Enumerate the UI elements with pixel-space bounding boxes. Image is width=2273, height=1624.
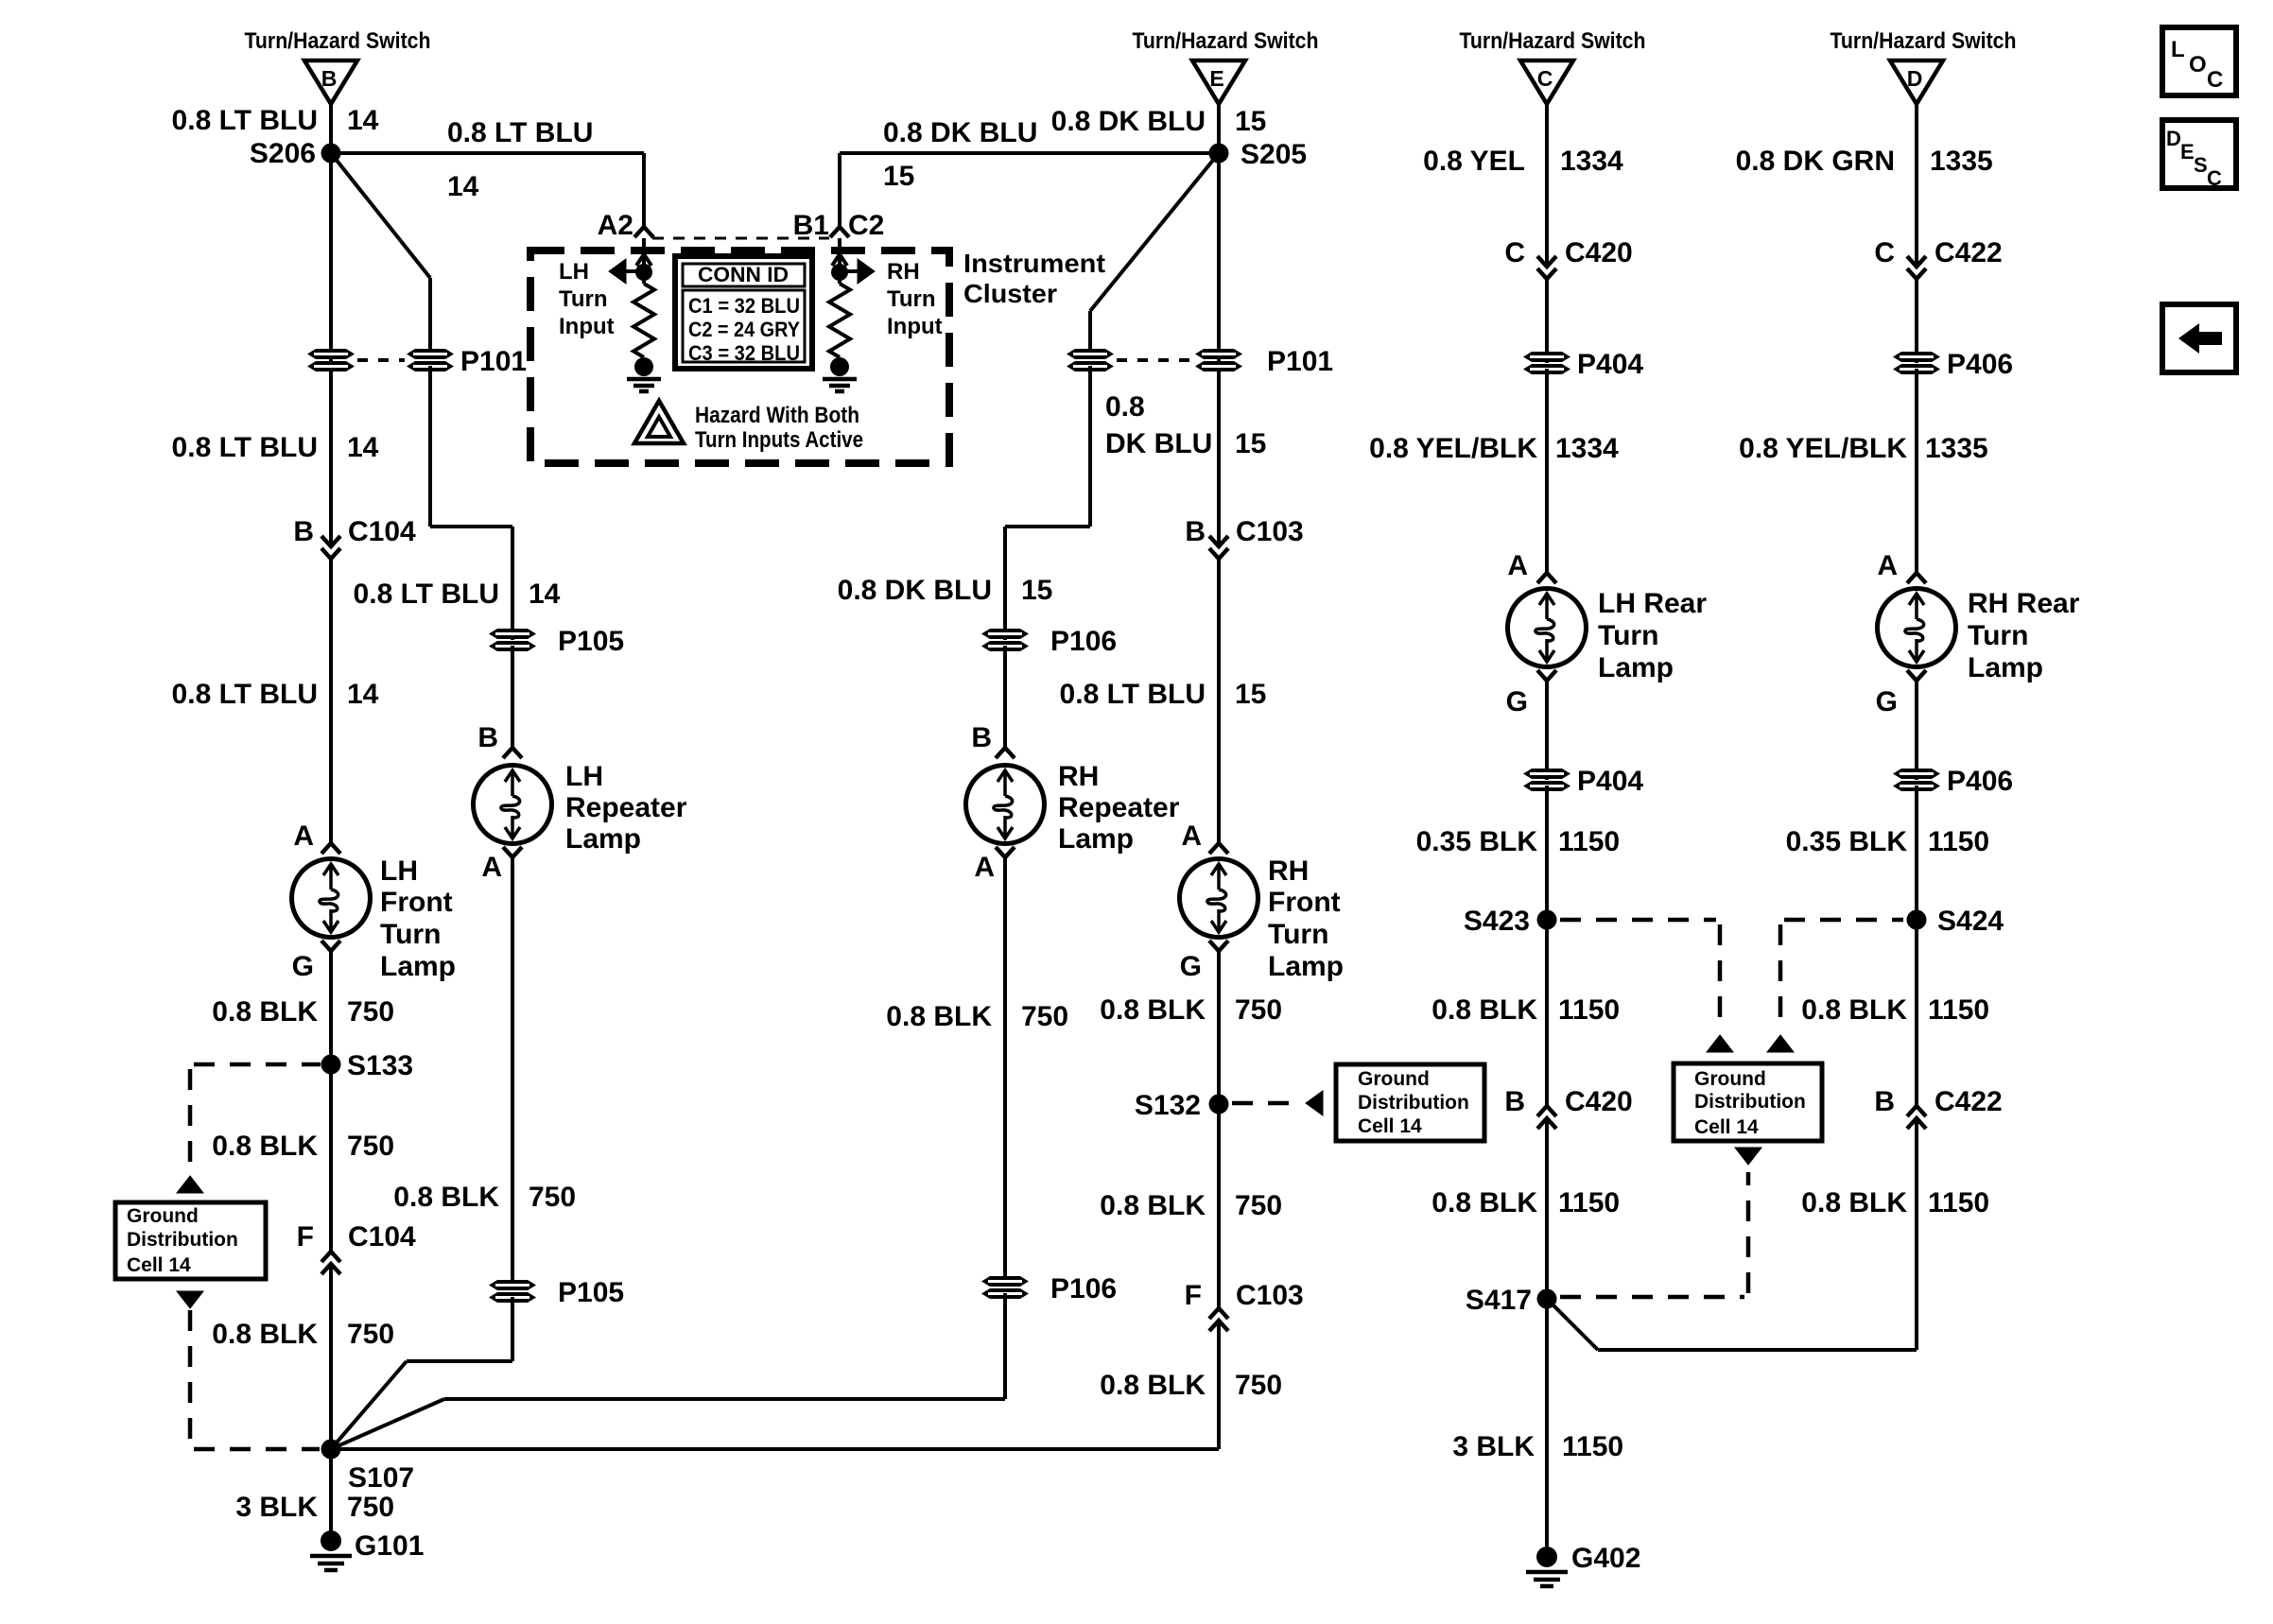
wire P406 to RH rear lamp bbox=[1915, 369, 1918, 573]
svg-text:0.8 BLK: 0.8 BLK bbox=[212, 996, 318, 1028]
svg-text:0.8 DK BLU: 0.8 DK BLU bbox=[883, 117, 1037, 148]
svg-text:1334: 1334 bbox=[1560, 146, 1623, 177]
wire diagonal corner down to P101 bbox=[428, 278, 432, 354]
grommet P101 (right pair, left) bbox=[1067, 349, 1114, 371]
svg-text:Turn/Hazard Switch: Turn/Hazard Switch bbox=[1133, 28, 1319, 54]
svg-text:A2: A2 bbox=[598, 210, 633, 241]
svg-text:0.8: 0.8 bbox=[1105, 391, 1145, 423]
svg-text:G402: G402 bbox=[1571, 1543, 1640, 1574]
svg-text:0.8 LT BLU: 0.8 LT BLU bbox=[1060, 679, 1206, 710]
lamp RH Front Turn Lamp bbox=[1180, 859, 1258, 938]
ground distribution box (left) bbox=[115, 1202, 266, 1279]
wire jog left bbox=[1005, 525, 1090, 528]
wire corner left toward S417 bbox=[1598, 1348, 1917, 1352]
svg-text:Input: Input bbox=[559, 314, 615, 339]
svg-text:A: A bbox=[1507, 550, 1528, 581]
connector triangle E (Turn/Hazard Switch) bbox=[1192, 60, 1245, 104]
svg-text:1150: 1150 bbox=[1558, 826, 1620, 857]
wire B C420 down to G402 bbox=[1545, 1118, 1549, 1546]
svg-text:0.8 LT BLU: 0.8 LT BLU bbox=[354, 579, 499, 610]
svg-text:0.8 LT BLU: 0.8 LT BLU bbox=[447, 117, 593, 148]
grommet P105 (bottom) bbox=[489, 1280, 536, 1303]
grommet P105 (top) bbox=[489, 629, 536, 651]
svg-text:15: 15 bbox=[1235, 679, 1266, 710]
svg-text:C2 = 24 GRY: C2 = 24 GRY bbox=[688, 318, 800, 341]
svg-text:RH: RH bbox=[1268, 855, 1309, 887]
lamp LH Repeater Lamp bbox=[474, 766, 552, 844]
ground G402 bbox=[1526, 1546, 1568, 1586]
svg-text:1150: 1150 bbox=[1928, 1187, 1989, 1218]
svg-text:Hazard With Both: Hazard With Both bbox=[695, 403, 859, 428]
svg-text:14: 14 bbox=[529, 579, 561, 610]
svg-text:S: S bbox=[2194, 153, 2208, 177]
wire F C104 down to G101 bbox=[329, 1264, 333, 1533]
arrow down out of ground distribution box (left) bbox=[177, 1291, 203, 1308]
svg-text:750: 750 bbox=[1235, 994, 1282, 1026]
svg-text:C1 = 32 BLU: C1 = 32 BLU bbox=[688, 294, 800, 318]
grommet P106 (top) bbox=[981, 629, 1029, 651]
svg-text:RH: RH bbox=[887, 259, 920, 285]
svg-text:E: E bbox=[1209, 66, 1223, 91]
svg-text:P105: P105 bbox=[558, 1277, 624, 1308]
svg-text:Repeater: Repeater bbox=[1058, 792, 1180, 823]
svg-text:0.8 BLK: 0.8 BLK bbox=[1431, 994, 1537, 1026]
svg-text:D: D bbox=[2166, 127, 2181, 150]
lamp RH Rear Turn Lamp bbox=[1878, 589, 1956, 667]
svg-text:Input: Input bbox=[887, 314, 943, 339]
arrow left out of ground distribution box (S132) bbox=[1306, 1091, 1323, 1115]
wire C103 to RH front turn lamp bbox=[1217, 559, 1221, 843]
grommet P106 (bottom) bbox=[981, 1276, 1029, 1299]
svg-text:15: 15 bbox=[1235, 106, 1266, 137]
svg-text:B: B bbox=[321, 66, 338, 91]
svg-text:G: G bbox=[292, 951, 314, 982]
svg-text:Turn/Hazard Switch: Turn/Hazard Switch bbox=[1460, 28, 1646, 54]
junction dot RH turn input bbox=[831, 264, 848, 281]
wire A2 into cluster bbox=[642, 238, 646, 284]
svg-text:S205: S205 bbox=[1241, 139, 1307, 170]
svg-text:G: G bbox=[1506, 686, 1528, 717]
svg-text:G: G bbox=[1876, 686, 1898, 717]
wire jog down to P105 bbox=[511, 527, 514, 640]
svg-text:Turn: Turn bbox=[1268, 919, 1328, 950]
grommet P406 (bottom) bbox=[1893, 769, 1940, 791]
ground G101 bbox=[310, 1530, 352, 1570]
wire jog down to P106 bbox=[1003, 527, 1007, 640]
svg-text:0.8 LT BLU: 0.8 LT BLU bbox=[172, 679, 318, 710]
svg-text:C: C bbox=[1504, 237, 1525, 268]
svg-text:Turn: Turn bbox=[1968, 620, 2028, 651]
svg-text:14: 14 bbox=[347, 679, 379, 710]
wire F C103 down to S107 run bbox=[1217, 1321, 1221, 1449]
grommet P101 (left pair, right) bbox=[407, 349, 454, 371]
svg-text:A: A bbox=[974, 852, 995, 883]
wire S205 diagonal to P101 branch bbox=[1090, 153, 1219, 311]
svg-text:0.8 BLK: 0.8 BLK bbox=[1100, 1190, 1206, 1221]
svg-text:750: 750 bbox=[1235, 1190, 1282, 1221]
svg-text:Ground: Ground bbox=[1694, 1068, 1766, 1090]
svg-text:C2: C2 bbox=[848, 210, 884, 241]
svg-text:S206: S206 bbox=[250, 138, 316, 169]
svg-text:C: C bbox=[1537, 66, 1553, 91]
svg-text:Turn: Turn bbox=[559, 286, 608, 312]
connector chevron G at LH front turn lamp bbox=[321, 941, 340, 951]
resistor LH turn input bbox=[633, 284, 654, 357]
connector interface dashed line A2-B1 bbox=[652, 237, 829, 240]
connector triangle C (Turn/Hazard Switch) bbox=[1520, 60, 1573, 104]
svg-text:Lamp: Lamp bbox=[380, 951, 456, 982]
svg-text:P404: P404 bbox=[1577, 349, 1643, 380]
wire LH rear lamp to P404 bottom bbox=[1545, 681, 1549, 780]
svg-text:750: 750 bbox=[347, 1319, 394, 1350]
svg-text:Ground: Ground bbox=[127, 1205, 199, 1227]
svg-text:750: 750 bbox=[347, 1492, 394, 1523]
svg-text:RH: RH bbox=[1058, 761, 1099, 792]
svg-text:0.8 DK BLU: 0.8 DK BLU bbox=[838, 575, 992, 606]
svg-text:0.8 DK BLU: 0.8 DK BLU bbox=[1051, 106, 1206, 137]
svg-text:Turn/Hazard Switch: Turn/Hazard Switch bbox=[1831, 28, 2017, 54]
svg-text:Ground: Ground bbox=[1358, 1068, 1430, 1090]
svg-text:A: A bbox=[1181, 821, 1202, 852]
arrow RH turn input (right) bbox=[858, 259, 875, 284]
svg-text:750: 750 bbox=[347, 1131, 394, 1162]
connector chevron G at LH rear lamp bbox=[1537, 670, 1556, 681]
svg-text:Cell 14: Cell 14 bbox=[1694, 1116, 1759, 1138]
svg-text:C3 = 32 BLU: C3 = 32 BLU bbox=[688, 341, 800, 365]
connector chevron A2 bbox=[634, 227, 653, 237]
wire D-switch down bbox=[1915, 104, 1918, 267]
svg-text:G101: G101 bbox=[355, 1530, 424, 1562]
connector chevron A at LH front turn lamp bbox=[321, 843, 340, 854]
svg-text:B: B bbox=[971, 722, 992, 753]
svg-text:S424: S424 bbox=[1937, 906, 2004, 937]
svg-text:C: C bbox=[2207, 166, 2222, 190]
lamp LH Rear Turn Lamp bbox=[1508, 589, 1587, 667]
svg-text:3 BLK: 3 BLK bbox=[1452, 1431, 1535, 1462]
wire diagonal corner down to P101 (right pair) bbox=[1088, 311, 1092, 354]
svg-text:0.8 BLK: 0.8 BLK bbox=[1801, 994, 1907, 1026]
svg-text:Distribution: Distribution bbox=[1694, 1091, 1806, 1113]
svg-text:S133: S133 bbox=[347, 1050, 413, 1081]
wire S205 down through P101 bbox=[1217, 153, 1221, 546]
svg-text:C104: C104 bbox=[348, 516, 416, 547]
svg-text:0.35 BLK: 0.35 BLK bbox=[1786, 826, 1908, 857]
wire B1 up to horizontal run bbox=[838, 153, 842, 227]
connector triangle B (Turn/Hazard Switch) bbox=[304, 60, 357, 104]
inline connector C422 (down) bbox=[1907, 256, 1926, 267]
instrument cluster dashed box bbox=[530, 251, 949, 463]
svg-text:P106: P106 bbox=[1050, 1273, 1117, 1304]
svg-text:C: C bbox=[1874, 237, 1895, 268]
svg-text:P106: P106 bbox=[1050, 626, 1117, 657]
svg-text:0.35 BLK: 0.35 BLK bbox=[1416, 826, 1538, 857]
wire B-switch to S206 bbox=[329, 104, 333, 153]
svg-text:C104: C104 bbox=[348, 1221, 416, 1253]
svg-text:0.8 DK GRN: 0.8 DK GRN bbox=[1736, 146, 1895, 177]
svg-text:1335: 1335 bbox=[1930, 146, 1993, 177]
svg-text:Distribution: Distribution bbox=[1358, 1092, 1469, 1114]
wire diagonal into S107 bbox=[331, 1361, 407, 1449]
svg-text:0.8 BLK: 0.8 BLK bbox=[1801, 1187, 1907, 1218]
splice S423 bbox=[1537, 910, 1557, 930]
LOC reference box bbox=[2162, 27, 2236, 95]
svg-text:Distribution: Distribution bbox=[127, 1229, 238, 1251]
wire P101 down to jog (RH repeater feed) bbox=[1088, 366, 1092, 527]
svg-text:Front: Front bbox=[380, 887, 453, 918]
svg-text:0.8 LT BLU: 0.8 LT BLU bbox=[172, 432, 318, 463]
connector chevron A at RH rear lamp bbox=[1907, 573, 1926, 583]
svg-text:S107: S107 bbox=[348, 1462, 414, 1494]
dashed reference S132 to ground distribution box bbox=[1232, 1101, 1303, 1106]
wire LH repeater lamp down to P105 bottom bbox=[511, 857, 514, 1281]
splice S206 bbox=[321, 144, 341, 164]
grommet P404 (top) bbox=[1523, 352, 1570, 374]
svg-text:LH: LH bbox=[565, 761, 603, 792]
wire B C422 down to corner bbox=[1915, 1118, 1918, 1350]
CONN ID table box bbox=[675, 256, 812, 369]
svg-text:B: B bbox=[1874, 1086, 1895, 1117]
inline connector C103 (down) bbox=[1209, 536, 1228, 546]
svg-text:1150: 1150 bbox=[1928, 826, 1989, 857]
svg-text:750: 750 bbox=[529, 1182, 576, 1213]
lamp RH Repeater Lamp bbox=[966, 766, 1045, 844]
arrow down out of ground distribution box (middle) bbox=[1735, 1148, 1761, 1165]
splice S133 bbox=[321, 1055, 341, 1075]
ground distribution box (S132) bbox=[1336, 1064, 1484, 1141]
splice S132 bbox=[1209, 1095, 1229, 1114]
grommet pair dashed link (left P101) bbox=[357, 358, 405, 362]
svg-text:LH: LH bbox=[559, 259, 589, 285]
svg-text:Front: Front bbox=[1268, 887, 1341, 918]
lamp LH Front Turn Lamp bbox=[292, 859, 371, 938]
wire S206 to A2 corner bbox=[331, 151, 644, 155]
resistor RH turn input bbox=[829, 284, 850, 357]
arrow up into ground distribution box (middle right) bbox=[1767, 1035, 1794, 1052]
svg-text:0.8 LT BLU: 0.8 LT BLU bbox=[172, 105, 318, 136]
svg-text:0.8 YEL: 0.8 YEL bbox=[1423, 146, 1525, 177]
junction dot LH turn input bbox=[635, 264, 652, 281]
svg-text:14: 14 bbox=[347, 432, 379, 463]
connector chevron G at RH front turn lamp bbox=[1209, 941, 1228, 951]
svg-text:Turn: Turn bbox=[380, 919, 441, 950]
svg-text:C103: C103 bbox=[1236, 1280, 1304, 1311]
dashed reference box to S107 bbox=[188, 1310, 193, 1444]
wire P105 bottom to corner bbox=[511, 1297, 514, 1361]
inline connector C420 (up) bbox=[1537, 1106, 1556, 1116]
svg-text:0.8 BLK: 0.8 BLK bbox=[212, 1319, 318, 1350]
wire E-switch to S205 bbox=[1217, 104, 1221, 153]
svg-text:14: 14 bbox=[447, 171, 479, 202]
wire S206 down through P101 bbox=[329, 153, 333, 546]
svg-text:F: F bbox=[1185, 1280, 1202, 1311]
svg-text:A: A bbox=[293, 821, 314, 852]
wire P404 to LH rear lamp bbox=[1545, 369, 1549, 573]
svg-text:D: D bbox=[1907, 66, 1923, 91]
connector chevron G at RH rear lamp bbox=[1907, 670, 1926, 681]
svg-text:G: G bbox=[1180, 951, 1202, 982]
dashed reference S424 to ground distribution box (middle) bbox=[1784, 918, 1903, 923]
svg-text:750: 750 bbox=[1235, 1370, 1282, 1401]
svg-text:750: 750 bbox=[347, 996, 394, 1028]
dashed reference S417 to ground distribution box (middle) bbox=[1560, 1295, 1744, 1300]
wire C422 to P406 bbox=[1915, 279, 1918, 363]
inline connector C104 (up) bbox=[321, 1252, 340, 1262]
wire P101 down to jog (LH repeater feed) bbox=[428, 366, 432, 527]
connector chevron B at RH repeater lamp bbox=[996, 748, 1015, 758]
inline connector C420 (down) bbox=[1537, 256, 1556, 267]
connector chevron B1/C2 bbox=[830, 227, 849, 237]
svg-text:1334: 1334 bbox=[1555, 433, 1619, 464]
arrow LH turn input (left) bbox=[609, 259, 626, 284]
ground distribution box (middle) bbox=[1674, 1063, 1822, 1141]
svg-text:C: C bbox=[2207, 67, 2223, 93]
svg-text:CONN ID: CONN ID bbox=[698, 263, 789, 286]
wire C2 into cluster bbox=[838, 238, 842, 284]
svg-text:15: 15 bbox=[883, 161, 914, 192]
grommet P404 (bottom) bbox=[1523, 769, 1570, 791]
hazard warning triangle symbol bbox=[634, 401, 684, 443]
svg-text:Cluster: Cluster bbox=[963, 279, 1057, 308]
wire C-switch down bbox=[1545, 104, 1549, 267]
svg-text:3 BLK: 3 BLK bbox=[235, 1492, 318, 1523]
svg-text:1150: 1150 bbox=[1558, 994, 1620, 1026]
splice S107 bbox=[321, 1440, 341, 1460]
wire P105 to LH repeater lamp bbox=[511, 646, 514, 748]
svg-text:C422: C422 bbox=[1935, 1086, 2003, 1117]
back-arrow reference box bbox=[2162, 304, 2236, 372]
wire C420 to P404 bbox=[1545, 279, 1549, 363]
svg-text:Lamp: Lamp bbox=[1268, 951, 1344, 982]
inline connector C104 (down) bbox=[321, 536, 340, 546]
wire diagonal into S417 bbox=[1549, 1301, 1598, 1350]
arrowhead up on RH turn input wire bbox=[832, 254, 847, 266]
wire RH turn input branch bbox=[840, 269, 871, 273]
svg-text:Turn: Turn bbox=[887, 286, 936, 312]
wire S107 horizontal run bbox=[331, 1447, 1219, 1451]
arrow up into ground distribution box (left) bbox=[177, 1176, 203, 1193]
svg-text:B1: B1 bbox=[793, 210, 829, 241]
svg-text:Lamp: Lamp bbox=[1598, 652, 1674, 683]
svg-text:1335: 1335 bbox=[1925, 433, 1988, 464]
connector chevron A at RH front turn lamp bbox=[1209, 843, 1228, 854]
splice S424 bbox=[1907, 910, 1927, 930]
svg-text:Turn: Turn bbox=[1598, 620, 1658, 651]
svg-text:B: B bbox=[477, 722, 498, 753]
svg-text:Turn Inputs Active: Turn Inputs Active bbox=[695, 427, 863, 453]
wire corner left toward S107 (repeater ground) bbox=[444, 1397, 1005, 1401]
svg-text:14: 14 bbox=[347, 105, 379, 136]
svg-text:Instrument: Instrument bbox=[963, 249, 1105, 278]
splice S417 bbox=[1537, 1289, 1557, 1309]
svg-text:0.8 BLK: 0.8 BLK bbox=[1431, 1187, 1537, 1218]
wire S206 diagonal to P101 branch bbox=[331, 153, 430, 278]
svg-text:LH: LH bbox=[380, 855, 418, 887]
connector chevron A at LH rear lamp bbox=[1537, 573, 1556, 583]
wire RH front turn lamp to F C103 bbox=[1217, 951, 1221, 1308]
wire LH front turn lamp to F C104 bbox=[329, 951, 333, 1252]
svg-text:Cell 14: Cell 14 bbox=[127, 1254, 191, 1276]
svg-text:P406: P406 bbox=[1947, 766, 2013, 797]
grommet P406 (top) bbox=[1893, 352, 1940, 374]
wire P106 to RH repeater lamp bbox=[1003, 646, 1007, 748]
inline connector C103 (up) bbox=[1209, 1308, 1228, 1319]
wire diagonal into S107 (repeater ground) bbox=[331, 1399, 444, 1449]
svg-text:RH Rear: RH Rear bbox=[1968, 588, 2080, 619]
svg-text:Cell 14: Cell 14 bbox=[1358, 1115, 1422, 1137]
wire corner down to A2 bbox=[642, 153, 646, 227]
svg-text:S132: S132 bbox=[1135, 1090, 1201, 1121]
wire corner left toward S107 bbox=[407, 1359, 512, 1363]
svg-text:C103: C103 bbox=[1236, 516, 1304, 547]
ground LH turn input (cluster internal) bbox=[627, 357, 661, 391]
svg-text:A: A bbox=[1877, 550, 1898, 581]
svg-text:E: E bbox=[2180, 140, 2195, 164]
arrow up into ground distribution box (middle left) bbox=[1707, 1035, 1733, 1052]
wire C104 to LH front turn lamp bbox=[329, 559, 333, 843]
svg-text:DK BLU: DK BLU bbox=[1105, 428, 1212, 459]
svg-text:Lamp: Lamp bbox=[1968, 652, 2043, 683]
svg-text:C422: C422 bbox=[1935, 237, 2003, 268]
svg-text:0.8 YEL/BLK: 0.8 YEL/BLK bbox=[1369, 433, 1537, 464]
dashed reference S423 to ground distribution box (middle) bbox=[1560, 918, 1716, 923]
svg-text:S423: S423 bbox=[1464, 906, 1530, 937]
svg-text:P406: P406 bbox=[1947, 349, 2013, 380]
grommet P101 (left pair, left) bbox=[307, 349, 355, 371]
ground RH turn input (cluster internal) bbox=[823, 357, 857, 391]
svg-text:0.8 YEL/BLK: 0.8 YEL/BLK bbox=[1739, 433, 1907, 464]
DESC reference box bbox=[2162, 120, 2236, 188]
svg-text:1150: 1150 bbox=[1558, 1187, 1620, 1218]
svg-text:B: B bbox=[1504, 1086, 1525, 1117]
svg-text:1150: 1150 bbox=[1928, 994, 1989, 1026]
svg-text:B: B bbox=[293, 516, 314, 547]
connector triangle D (Turn/Hazard Switch) bbox=[1890, 60, 1943, 104]
svg-text:Lamp: Lamp bbox=[1058, 823, 1134, 855]
svg-text:P404: P404 bbox=[1577, 766, 1643, 797]
svg-text:F: F bbox=[297, 1221, 314, 1253]
svg-text:750: 750 bbox=[1021, 1001, 1068, 1032]
arrowhead up on LH turn input wire bbox=[636, 254, 651, 266]
svg-text:0.8 BLK: 0.8 BLK bbox=[1100, 994, 1206, 1026]
svg-text:P105: P105 bbox=[558, 626, 624, 657]
svg-text:0.8 BLK: 0.8 BLK bbox=[1100, 1370, 1206, 1401]
svg-text:Turn/Hazard Switch: Turn/Hazard Switch bbox=[245, 28, 431, 54]
svg-text:15: 15 bbox=[1235, 428, 1266, 459]
svg-text:LH Rear: LH Rear bbox=[1598, 588, 1707, 619]
svg-text:A: A bbox=[481, 852, 502, 883]
svg-text:L: L bbox=[2171, 37, 2185, 62]
wire P406 bottom to B C422 bbox=[1915, 786, 1918, 1106]
wire P106 bottom down to corner bbox=[1003, 1293, 1007, 1399]
svg-text:C420: C420 bbox=[1565, 1086, 1633, 1117]
wire jog right bbox=[430, 525, 512, 528]
connector chevron A at RH repeater lamp bbox=[996, 847, 1015, 857]
svg-text:C420: C420 bbox=[1565, 237, 1633, 268]
svg-text:S417: S417 bbox=[1466, 1285, 1532, 1316]
wire B1 corner to S205 bbox=[840, 151, 1219, 155]
splice S205 bbox=[1209, 144, 1229, 164]
svg-text:P101: P101 bbox=[1267, 346, 1333, 377]
grommet P101 (right pair, right) bbox=[1195, 349, 1242, 371]
inline connector C422 (up) bbox=[1907, 1106, 1926, 1116]
svg-text:0.8 BLK: 0.8 BLK bbox=[886, 1001, 992, 1032]
svg-text:15: 15 bbox=[1021, 575, 1052, 606]
svg-text:Repeater: Repeater bbox=[565, 792, 687, 823]
svg-text:B: B bbox=[1185, 516, 1206, 547]
wire P404 bottom to B C420 bbox=[1545, 786, 1549, 1106]
svg-text:0.8 BLK: 0.8 BLK bbox=[212, 1131, 318, 1162]
svg-text:0.8 BLK: 0.8 BLK bbox=[393, 1182, 499, 1213]
